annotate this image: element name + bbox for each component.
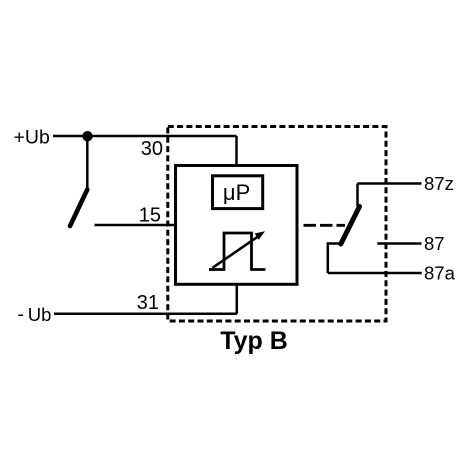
svg-text:87a: 87a: [424, 263, 456, 284]
adjustment arrow across waveform: [213, 236, 260, 268]
wire 87z down to contact: [356, 184, 359, 207]
svg-text:+Ub: +Ub: [13, 127, 49, 149]
relay contact blade K1: [341, 207, 360, 245]
mechanical link dashed line to relay armature: [304, 224, 346, 227]
svg-text:87: 87: [424, 233, 445, 254]
control unit box U1: [176, 166, 298, 285]
wire terminal 87: [377, 242, 421, 245]
svg-text:Ub: Ub: [28, 304, 52, 325]
wire terminal 31 to -Ub: [54, 313, 237, 316]
microprocessor box uP: [213, 176, 263, 209]
wire terminal 87z: [358, 182, 422, 185]
wire terminal 87a: [328, 272, 422, 275]
svg-text:15: 15: [139, 205, 161, 227]
svg-text:-: -: [18, 304, 25, 326]
adjustable pulse waveform symbol: [209, 233, 266, 270]
svg-text:87z: 87z: [424, 173, 454, 194]
relay module dashed enclosure (Typ B): [168, 127, 386, 322]
wire terminal 15: [95, 224, 177, 227]
svg-text:31: 31: [137, 292, 159, 314]
wire 87a step: [328, 244, 341, 274]
wire 30 drop into control box: [235, 136, 238, 166]
switch S1 blade (ignition switch, open): [70, 190, 87, 227]
wire +Ub to terminal 30 entry: [53, 135, 237, 138]
svg-text:Typ B: Typ B: [220, 327, 288, 355]
wire junction down to switch: [86, 136, 89, 189]
node junction at +Ub: [82, 131, 92, 141]
svg-text:μP: μP: [223, 180, 250, 205]
wire 31 drop out of control box: [236, 284, 239, 314]
svg-text:30: 30: [141, 138, 163, 160]
